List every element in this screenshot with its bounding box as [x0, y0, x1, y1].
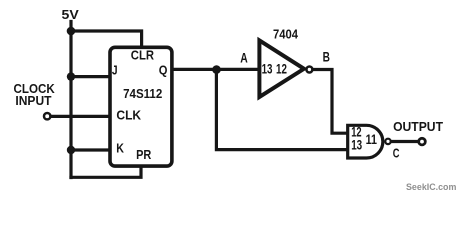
svg-text:K: K: [116, 141, 124, 156]
terminal CLOCK INPUT: [44, 113, 50, 119]
svg-text:CLK: CLK: [116, 108, 141, 123]
svg-text:Q: Q: [159, 62, 168, 77]
terminal OUTPUT: [419, 138, 426, 145]
wire inverter output B down to NAND input 12: [314, 70, 349, 134]
svg-text:INPUT: INPUT: [15, 93, 51, 108]
svg-text:A: A: [240, 50, 248, 65]
svg-text:J: J: [112, 62, 118, 77]
flip-flop U1 74S112 box: [110, 47, 172, 166]
wire Q output to inverter input: [172, 68, 259, 71]
junction J node: [67, 72, 75, 80]
wire J pin: [71, 75, 110, 78]
wire 5V rail vertical: [69, 22, 72, 178]
wire node A down to NAND input 13: [216, 69, 348, 149]
svg-text:B: B: [323, 50, 331, 65]
junction 5V node: [67, 27, 76, 36]
wire 5V to CLR (top horizontal + drop to box top): [71, 31, 142, 47]
wire CLK from input terminal: [52, 115, 111, 118]
svg-text:OUTPUT: OUTPUT: [393, 119, 443, 134]
svg-text:13: 13: [351, 137, 362, 152]
svg-text:13 12: 13 12: [262, 61, 287, 76]
svg-text:CLR: CLR: [131, 47, 154, 62]
svg-text:11: 11: [366, 132, 378, 147]
wire NAND output to terminal: [392, 140, 418, 143]
inverter U2 7404 triangle: [259, 40, 304, 97]
junction K node: [67, 146, 75, 154]
nand output bubble: [385, 139, 390, 144]
svg-text:C: C: [393, 145, 400, 160]
wire PR loop (rail bottom to PR at box bottom): [71, 166, 141, 177]
svg-text:74S112: 74S112: [123, 86, 162, 101]
svg-text:7404: 7404: [273, 26, 299, 41]
wire K pin: [71, 148, 110, 151]
inverter output bubble: [306, 67, 312, 73]
junction node A: [212, 65, 221, 74]
svg-text:PR: PR: [136, 147, 152, 162]
svg-text:5V: 5V: [62, 7, 79, 22]
svg-text:SeekIC.com: SeekIC.com: [406, 182, 456, 193]
nand gate U3 body: [348, 125, 383, 158]
